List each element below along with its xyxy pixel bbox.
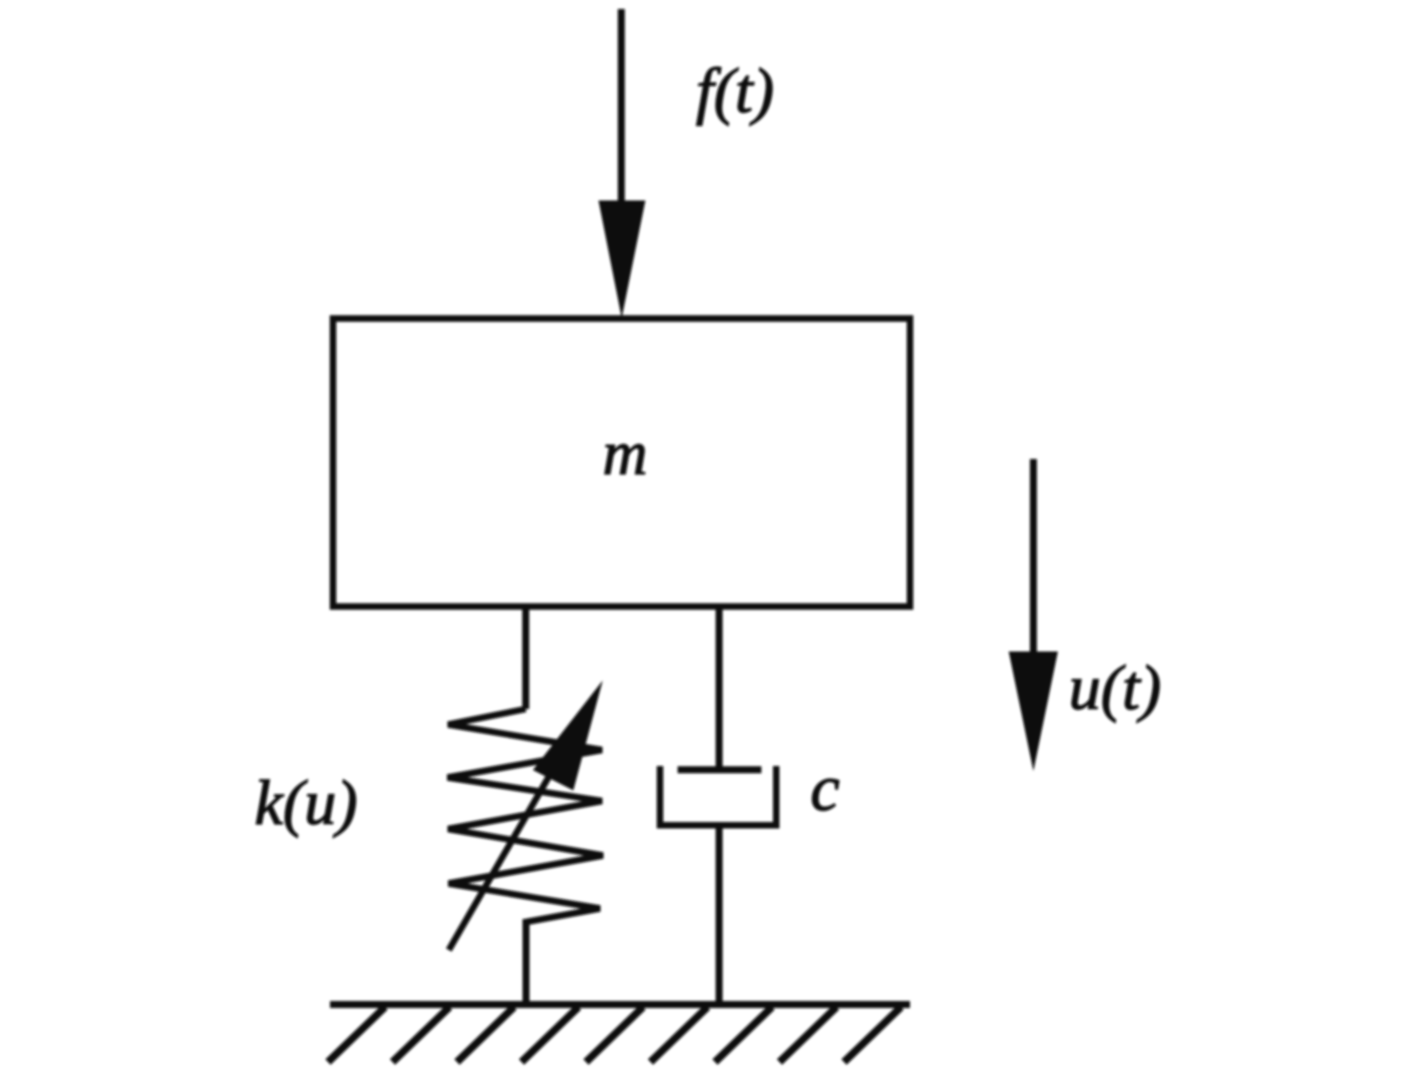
svg-text:c: c <box>810 752 839 825</box>
ground hatch 5 <box>586 1007 643 1062</box>
damper piston plate <box>678 766 762 773</box>
wire from mass bottom to damper piston <box>716 606 723 770</box>
ground hatch 2 <box>393 1007 450 1062</box>
wire from damper cup to ground <box>716 825 723 1005</box>
nonlinearity arrow shaft through spring <box>449 714 585 950</box>
svg-text:u(t): u(t) <box>1069 652 1161 723</box>
ground line <box>330 1001 910 1008</box>
mass m rectangle <box>333 319 910 607</box>
displacement arrow u(t) shaft <box>1030 459 1037 655</box>
ground hatch 9 <box>844 1007 901 1062</box>
ground hatch 4 <box>522 1007 579 1062</box>
svg-text:f(t): f(t) <box>696 55 774 126</box>
ground hatch 8 <box>780 1007 837 1062</box>
svg-text:k(u): k(u) <box>254 767 357 838</box>
svg-text:m: m <box>603 420 648 488</box>
ground hatch 3 <box>457 1007 514 1062</box>
damper cylinder cup <box>660 766 776 825</box>
wire from mass bottom to spring top <box>522 606 529 709</box>
force arrow f(t) head <box>599 201 646 319</box>
ground hatch 1 <box>328 1007 385 1062</box>
ground hatch 6 <box>651 1007 708 1062</box>
wire from spring bottom to ground <box>523 919 530 1005</box>
force arrow f(t) shaft <box>618 9 625 206</box>
ground hatch 7 <box>715 1007 772 1062</box>
nonlinearity arrow head <box>533 681 603 791</box>
displacement arrow u(t) head <box>1009 652 1058 772</box>
spring k(u) zigzag <box>448 709 604 922</box>
